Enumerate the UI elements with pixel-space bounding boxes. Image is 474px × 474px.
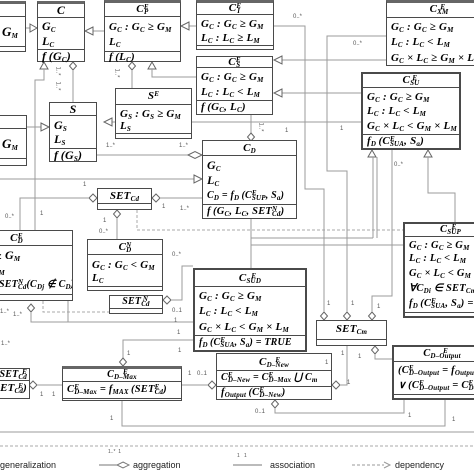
generalization arrow at C right xyxy=(85,27,93,35)
class S xyxy=(49,102,97,162)
generalization arrow at CSE right (bottom) xyxy=(274,89,282,97)
dashed dependency SETCd to CSUPE xyxy=(137,210,403,230)
wire SETCd left to CDE xyxy=(20,198,89,230)
wire SETCd to CDN xyxy=(116,218,118,239)
class C xyxy=(37,1,85,62)
wire SETCdE to CDMax xyxy=(37,384,62,386)
aggregation diamond on SETCm top 2 xyxy=(344,312,351,320)
generalization arrow below CPE xyxy=(148,62,156,69)
aggregation diamond at SETCd right xyxy=(152,194,160,202)
aggregation diamond below C xyxy=(70,62,77,70)
generalization arrow into C left xyxy=(30,24,37,32)
class CSUE xyxy=(361,72,461,150)
wire M2 to S generalization xyxy=(27,126,41,128)
class CDNew xyxy=(216,353,332,400)
dashed separator above legend xyxy=(0,445,474,447)
aggregation diamond below CDNew xyxy=(272,400,279,408)
aggregation diamond below CDE xyxy=(28,304,35,312)
class SETCdE (cut left) xyxy=(0,368,30,399)
wire bottom frame line xyxy=(0,431,474,433)
class SETCm xyxy=(316,320,387,346)
aggregation diamond on CD top xyxy=(248,133,255,141)
wire C down to CD generalization xyxy=(35,69,44,230)
aggregation diamond below SETCd xyxy=(114,210,121,218)
wire CD to CSUE triangle horizontal xyxy=(251,237,373,239)
class M2 (cut, mid-left) xyxy=(0,115,27,166)
wire CIE down to SETCm xyxy=(274,26,324,312)
wire SE to CSUE association xyxy=(192,121,361,123)
wire CDMax to CDNew xyxy=(182,384,208,386)
wire CSUE to CD via y238 xyxy=(372,157,374,238)
wire CDNew to CDOutput bottom xyxy=(275,400,404,413)
aggregation diamond at CD left xyxy=(188,152,202,159)
wire CIE to CPE generalization xyxy=(189,25,196,27)
generalization arrow below CSUE left xyxy=(368,150,376,157)
wire CSUE to SETCm association xyxy=(372,150,392,312)
generalization arrow at CSE right (top) xyxy=(274,56,282,64)
wire CXME down to SETCm xyxy=(327,36,386,312)
wire CDE bottom stub xyxy=(67,301,69,322)
class CDE (cut left) xyxy=(0,230,73,301)
wire SETCdN to CSUDE xyxy=(171,266,193,300)
wire SE to S generalization xyxy=(112,121,115,123)
dashed dependency SETCdN to CDE xyxy=(43,301,109,312)
generalization arrow at S left xyxy=(41,123,49,131)
aggregation diamond at SETCdN right xyxy=(163,296,171,304)
wire CSUE double line xyxy=(376,157,378,238)
class CSE xyxy=(196,56,273,115)
aggregation diamond at CDNew right xyxy=(332,381,340,389)
aggregation diamond on CDMax top xyxy=(120,358,127,366)
aggregation diamond on SETCm top 1 xyxy=(321,312,328,320)
wire CXME to CSE generalization xyxy=(282,59,386,61)
wire CD down through CSUDE top xyxy=(250,219,252,268)
aggregation diamond at SETCdE right xyxy=(29,381,37,389)
generalization arrow at CD left xyxy=(194,175,202,183)
wire to CSUPE association xyxy=(251,244,403,246)
wire CSUDE to CDMax aggregation xyxy=(123,340,193,358)
legend text xyxy=(0,460,56,470)
class SETCd xyxy=(97,188,152,210)
wire CSE to CD aggregation xyxy=(250,115,252,133)
generalization arrow at S right xyxy=(104,118,112,126)
wire horizontal to CD xyxy=(0,178,194,180)
class CDMax xyxy=(62,366,182,401)
class CDOutput (cut right) xyxy=(392,345,474,400)
wire CSUE to CSUPE generalization xyxy=(428,157,455,222)
class CXME (cut right) xyxy=(386,0,474,66)
wire SETCm to CDNew xyxy=(340,346,347,385)
class M (cut, top-left) xyxy=(0,1,26,52)
wire C to S aggregation xyxy=(72,70,74,102)
class CDN xyxy=(87,239,163,291)
wire M to C generalization xyxy=(25,27,30,29)
class CD xyxy=(202,140,297,219)
legend dependency symbol xyxy=(352,464,384,466)
aggregation diamond at CDNew left xyxy=(208,381,216,389)
wire CDE to CSUDE association xyxy=(31,312,193,322)
class CPE xyxy=(104,0,181,62)
class SETCdN xyxy=(109,295,163,314)
generalization arrow at CPE right xyxy=(181,22,189,30)
wire CPE to C generalization xyxy=(93,30,104,32)
aggregation diamond on SETCm top 3 xyxy=(369,312,376,320)
class CIE xyxy=(196,0,274,50)
class CSUDE xyxy=(193,268,307,352)
wire SETCm to CDOutput xyxy=(375,354,392,359)
legend association symbol xyxy=(233,464,262,466)
multiplicity labels xyxy=(55,66,61,75)
class SE xyxy=(115,88,192,139)
class CSUPE (cut right) xyxy=(403,222,474,318)
wire S to CD association xyxy=(97,154,188,156)
aggregation diamond at SETCd left xyxy=(89,194,97,202)
generalization arrow below CSUE right xyxy=(424,150,432,157)
wire CDMax to CDOutput bottom loop xyxy=(122,400,445,426)
wire SETCd right to CD xyxy=(160,197,202,199)
aggregation diamond below CPE xyxy=(129,62,136,70)
generalization arrow below C xyxy=(40,62,48,69)
wire CPE to SE aggregation xyxy=(131,70,133,88)
wire CSE to CPE generalization xyxy=(152,69,196,77)
legend aggregation symbol xyxy=(99,464,120,466)
wire CSUE to CSE generalization xyxy=(282,92,361,94)
aggregation diamond below SETCm xyxy=(372,346,379,354)
